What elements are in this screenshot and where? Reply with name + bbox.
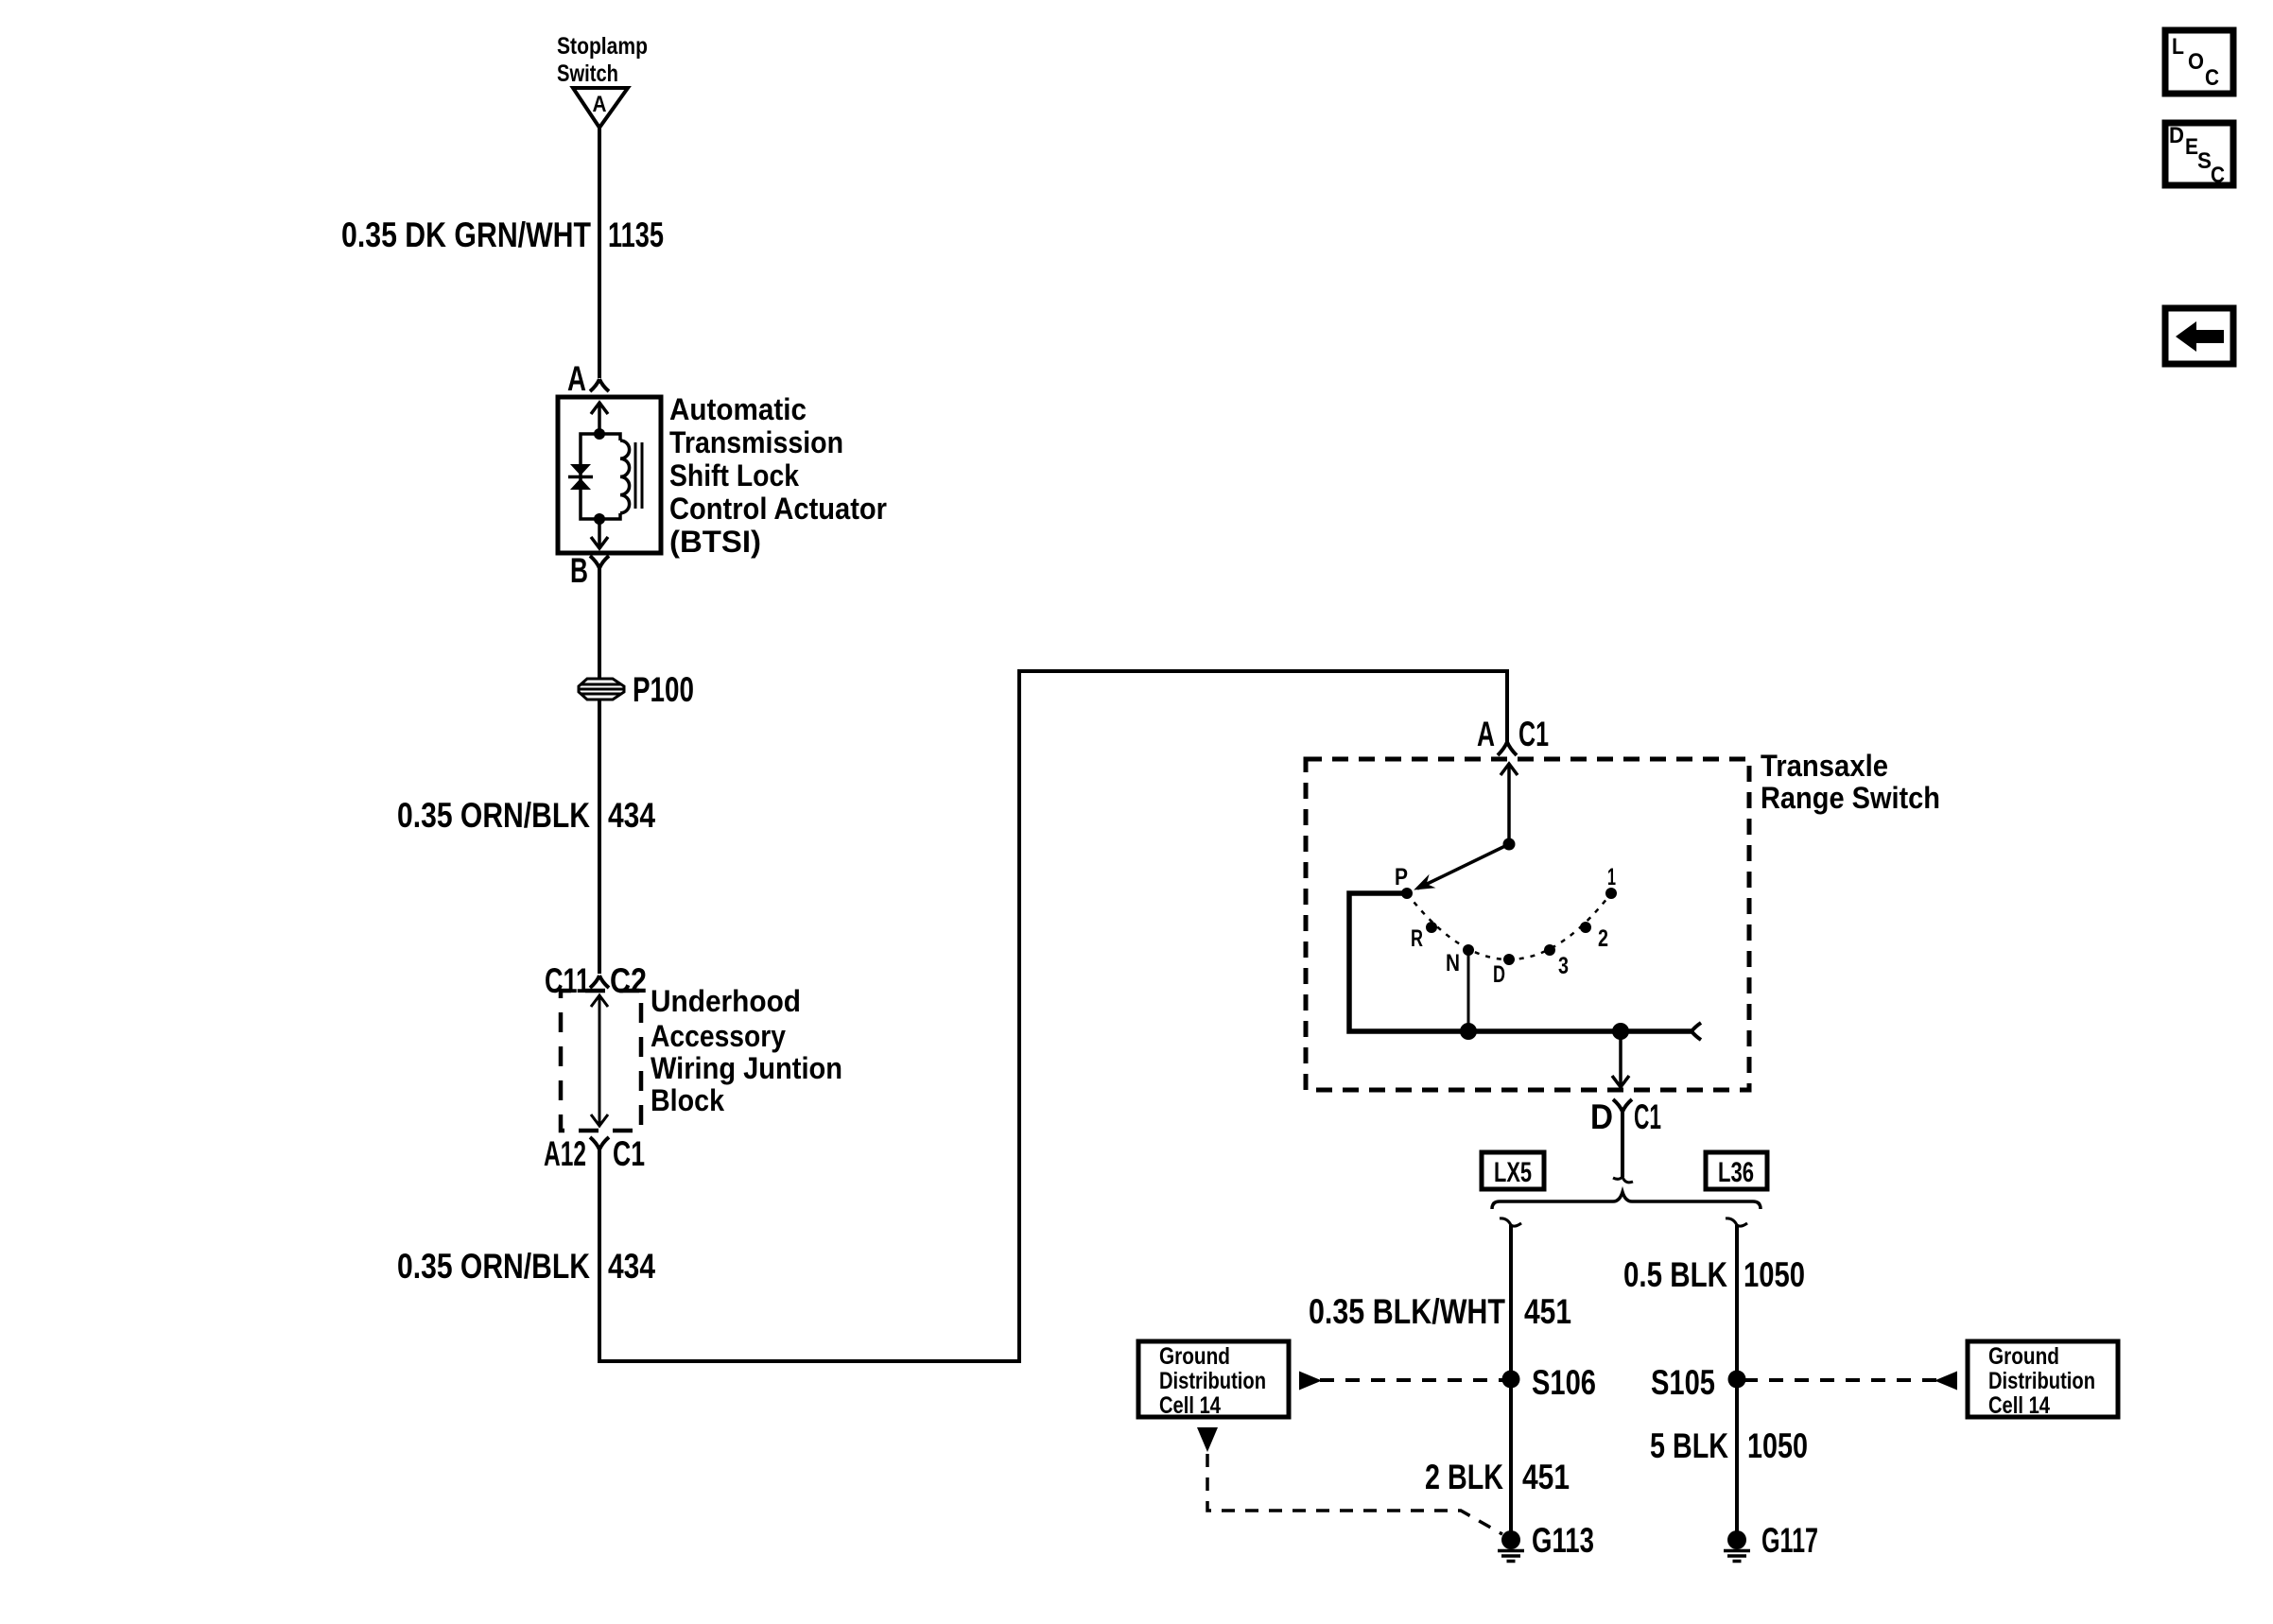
P contact wire — [1349, 893, 1692, 1031]
junction block internal arrow (both ends) — [591, 995, 608, 1126]
contact dots — [1401, 888, 1617, 965]
wire: left branch to S106 — [1509, 1225, 1513, 1379]
underhood junction block dashed box — [561, 991, 641, 1131]
node dot top — [594, 428, 605, 440]
svg-text:434: 434 — [608, 796, 655, 835]
dashed link: left box to S106 — [1320, 1378, 1502, 1382]
wire label 0.35 ORN/BLK 434 (upper) — [397, 796, 655, 835]
svg-text:(BTSI): (BTSI) — [669, 525, 761, 559]
ground distribution box left — [1138, 1341, 1289, 1419]
svg-text:0.35 ORN/BLK: 0.35 ORN/BLK — [397, 796, 590, 835]
connector half (male) at BTSI pin B — [590, 556, 609, 568]
ground G117 symbol — [1724, 1530, 1750, 1562]
wire label 2 BLK 451 — [1425, 1458, 1570, 1496]
contact arc (dashed) — [1407, 893, 1611, 959]
svg-text:434: 434 — [608, 1247, 655, 1286]
svg-text:Distribution: Distribution — [1159, 1368, 1266, 1394]
svg-text:A: A — [1477, 715, 1495, 753]
node dot bottom — [594, 513, 605, 525]
connector half (female) C11/C2 — [590, 976, 609, 988]
splice S105 dot and label — [1651, 1363, 1746, 1402]
coil core lines — [635, 442, 642, 509]
ground G113 symbol — [1498, 1530, 1524, 1562]
svg-text:C11: C11 — [545, 961, 590, 1000]
svg-text:1050: 1050 — [1744, 1255, 1805, 1294]
svg-text:451: 451 — [1522, 1458, 1570, 1496]
left branch squiggle — [1500, 1218, 1521, 1226]
svg-text:Wiring Juntion: Wiring Juntion — [651, 1051, 842, 1085]
connector half (male) D/C1 — [1613, 1099, 1632, 1112]
svg-text:Switch: Switch — [557, 60, 618, 87]
svg-text:E: E — [2185, 134, 2198, 160]
svg-text:Stoplamp: Stoplamp — [557, 33, 648, 60]
component box: BTSI outline — [558, 397, 661, 553]
svg-text:5 BLK: 5 BLK — [1650, 1426, 1728, 1465]
stoplamp switch triangle connector A — [573, 88, 628, 128]
solenoid coil — [620, 441, 630, 513]
DESC reference box — [2165, 123, 2233, 188]
wire: right branch squiggle — [1726, 1218, 1747, 1226]
junction dot at D output — [1612, 1023, 1629, 1040]
svg-text:O: O — [2188, 49, 2204, 75]
rotor arm arrow to P — [1414, 844, 1509, 890]
transaxle range switch label — [1761, 749, 1940, 815]
dashed route from left box to G113 — [1207, 1454, 1502, 1534]
svg-text:C1: C1 — [1634, 1097, 1661, 1136]
pin D / C1 labels — [1590, 1097, 1661, 1136]
wire label 0.35 DK GRN/WHT 1135 — [341, 216, 664, 254]
svg-text:Cell 14: Cell 14 — [1159, 1392, 1221, 1419]
svg-text:Control Actuator: Control Actuator — [669, 492, 887, 526]
svg-text:Block: Block — [651, 1083, 724, 1117]
switch output arrow down — [1612, 1031, 1629, 1087]
svg-text:1050: 1050 — [1747, 1426, 1808, 1465]
svg-text:P100: P100 — [633, 670, 694, 709]
rotor pivot dot — [1503, 838, 1516, 851]
svg-text:Underhood: Underhood — [651, 984, 801, 1018]
wire: D/C1 down to splice — [1621, 1112, 1624, 1177]
component label: BTSI — [669, 392, 887, 559]
back arrow box — [2165, 308, 2233, 364]
svg-text:L: L — [2172, 34, 2184, 60]
svg-text:Range Switch: Range Switch — [1761, 781, 1940, 815]
svg-text:G113: G113 — [1532, 1521, 1594, 1560]
arrow down from left box — [1197, 1427, 1218, 1452]
junction dot at N drop — [1460, 1023, 1477, 1040]
svg-text:D: D — [1493, 961, 1505, 988]
wire label 0.5 BLK 1050 — [1623, 1255, 1805, 1294]
wire: S106 to G113 — [1509, 1379, 1513, 1531]
svg-text:S106: S106 — [1532, 1363, 1596, 1402]
right pivot half connector — [1692, 1023, 1701, 1040]
svg-text:Transaxle: Transaxle — [1761, 749, 1888, 783]
wire: stoplamp switch to BTSI pin A — [598, 128, 601, 378]
svg-text:A: A — [567, 359, 586, 398]
svg-text:2 BLK: 2 BLK — [1425, 1458, 1503, 1496]
arrow left toward S105 — [1935, 1372, 1957, 1391]
svg-text:D: D — [2169, 123, 2184, 148]
pin A / C1 labels at switch — [1477, 715, 1549, 753]
wire: A12/C1 routed to transaxle range switch — [599, 671, 1507, 1361]
svg-text:0.35 BLK/WHT: 0.35 BLK/WHT — [1309, 1292, 1505, 1331]
svg-text:2: 2 — [1598, 925, 1608, 952]
wire: P100 to C11 — [598, 700, 601, 974]
svg-text:0.35 DK GRN/WHT: 0.35 DK GRN/WHT — [341, 216, 591, 254]
svg-text:B: B — [570, 551, 588, 590]
wire label 0.35 ORN/BLK 434 (lower) — [397, 1247, 655, 1286]
svg-text:Automatic: Automatic — [669, 392, 807, 426]
svg-text:0.35 ORN/BLK: 0.35 ORN/BLK — [397, 1247, 590, 1286]
wire: right branch to S105 — [1735, 1225, 1739, 1379]
svg-text:C1: C1 — [613, 1134, 645, 1173]
svg-text:1135: 1135 — [608, 216, 664, 254]
N contact drop wire — [1467, 950, 1470, 1031]
svg-text:C: C — [2205, 65, 2219, 91]
svg-text:LX5: LX5 — [1494, 1157, 1532, 1188]
wire: pin B to P100 — [598, 567, 601, 679]
underhood accessory wiring juntion block label — [651, 984, 842, 1117]
wire label 0.35 BLK/WHT 451 — [1309, 1292, 1571, 1331]
ground distribution box right — [1968, 1341, 2118, 1419]
wire: S105 to G117 — [1735, 1379, 1739, 1531]
svg-text:Accessory: Accessory — [651, 1019, 786, 1053]
svg-text:S105: S105 — [1651, 1363, 1715, 1402]
arrow right from left box — [1299, 1372, 1322, 1391]
P100 grommet — [579, 679, 624, 700]
BTSI internal arrow up — [591, 403, 608, 434]
svg-text:451: 451 — [1524, 1292, 1571, 1331]
svg-text:C2: C2 — [610, 961, 647, 1000]
connector A12 / C1 labels — [544, 1134, 645, 1173]
splice S106 dot and label — [1502, 1363, 1597, 1402]
svg-text:0.5 BLK: 0.5 BLK — [1623, 1255, 1727, 1294]
svg-text:Transmission: Transmission — [669, 425, 843, 459]
stoplamp switch label — [557, 33, 648, 87]
L36 option box — [1706, 1152, 1767, 1189]
LOC reference box — [2165, 30, 2233, 94]
svg-text:P: P — [1395, 864, 1408, 890]
svg-text:A: A — [593, 92, 607, 117]
transaxle range switch dashed box — [1306, 759, 1749, 1090]
svg-text:Ground: Ground — [1159, 1343, 1230, 1370]
svg-text:L36: L36 — [1718, 1157, 1754, 1188]
svg-text:A12: A12 — [544, 1134, 586, 1173]
connector half (female) at BTSI pin A — [590, 379, 609, 391]
svg-text:S: S — [2197, 148, 2212, 174]
wire label 5 BLK 1050 — [1650, 1426, 1808, 1465]
svg-text:Distribution: Distribution — [1988, 1368, 2095, 1394]
switch feed arrow up — [1501, 764, 1518, 844]
contact labels P R N D 3 2 1 — [1395, 864, 1616, 988]
svg-text:1: 1 — [1607, 864, 1616, 890]
svg-text:Ground: Ground — [1988, 1343, 2059, 1370]
svg-text:C: C — [2211, 163, 2225, 188]
overbrace splice — [1492, 1192, 1761, 1209]
svg-text:D: D — [1590, 1097, 1613, 1136]
connector half (male) A12/C1 — [590, 1137, 609, 1149]
connector half (female) at switch A/C1 — [1498, 742, 1517, 755]
wire end squiggle — [1613, 1177, 1633, 1183]
svg-text:R: R — [1411, 925, 1423, 952]
diode pair (bidirectional clamp) — [568, 464, 593, 490]
parallel loop wires — [581, 434, 620, 519]
BTSI internal arrow down — [591, 519, 608, 548]
svg-text:C1: C1 — [1518, 715, 1549, 753]
LX5 option box — [1482, 1152, 1544, 1189]
svg-text:G117: G117 — [1761, 1521, 1818, 1560]
svg-text:Cell 14: Cell 14 — [1988, 1392, 2050, 1419]
dashed link: S105 to right arrow — [1745, 1378, 1936, 1382]
svg-text:N: N — [1446, 950, 1460, 976]
svg-text:3: 3 — [1558, 953, 1569, 979]
svg-text:Shift Lock: Shift Lock — [669, 458, 799, 492]
connector C11 / C2 labels — [545, 961, 647, 1000]
